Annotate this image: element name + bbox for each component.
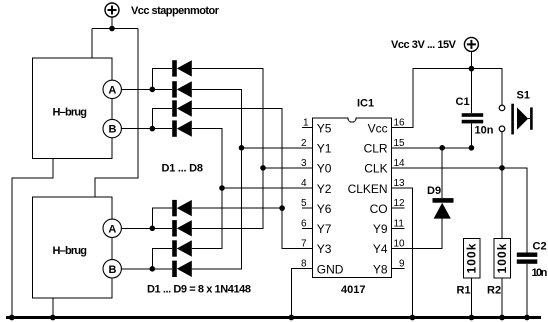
svg-text:2: 2: [301, 138, 307, 149]
svg-text:C2: C2: [533, 241, 547, 253]
wire node A1: [121, 88, 172, 90]
wire supply terminal down to C1: [470, 51, 472, 113]
wire Vcc pin 16 to supply: [392, 69, 472, 128]
svg-text:13: 13: [394, 178, 406, 189]
diode D9: [433, 198, 454, 219]
svg-text:6: 6: [301, 218, 307, 229]
svg-text:B: B: [109, 264, 117, 276]
supply terminal Vcc stappenmotor: [105, 3, 119, 17]
wire D7 stub from B2: [152, 249, 172, 269]
terminal A coil 2: [103, 219, 121, 237]
capacitor C2: [517, 253, 538, 264]
wire D1 stub from A1: [152, 68, 172, 89]
svg-text:7: 7: [301, 238, 307, 249]
wire net Y1 (pin 2, D2 anode to D8 anode): [192, 89, 313, 268]
wire D9 anode to Y4 pin 10: [392, 219, 443, 249]
resistor R2: [494, 238, 511, 278]
wire top rail: [92, 28, 138, 30]
svg-text:Y7: Y7: [317, 222, 332, 236]
wire Vcc to H-brug 2: [95, 29, 138, 198]
wire C1 bottom to CLR node: [470, 123, 472, 147]
svg-text:Vcc 3V ... 15V: Vcc 3V ... 15V: [391, 39, 457, 51]
wire net Y0 (pin 3, D1 anode to D6 anode): [192, 68, 313, 228]
H-bridge block 1: [32, 58, 112, 159]
svg-text:4017: 4017: [341, 284, 365, 296]
wire node A2: [121, 227, 172, 229]
svg-text:R1: R1: [457, 285, 471, 297]
junction Y0 net: [260, 165, 266, 171]
svg-text:10n: 10n: [532, 267, 548, 279]
svg-text:Y2: Y2: [317, 182, 332, 196]
diode D6: [172, 220, 192, 236]
wire CLKEN pin 13 to ground rail: [392, 188, 413, 318]
svg-text:15: 15: [394, 138, 406, 149]
svg-text:S1: S1: [517, 89, 530, 101]
wire D5 stub from A2: [152, 208, 172, 228]
wire H-brug1 ground: [12, 159, 53, 318]
junction Y2 net: [219, 185, 225, 191]
wire net Y2 (pin 4, D4 anode to D7 anode): [192, 129, 313, 249]
pin 1 stub Y5: [302, 127, 312, 129]
junction B2: [150, 266, 156, 272]
diode D2: [172, 81, 192, 97]
wire CLK pin 14 to C2: [392, 168, 527, 253]
supply terminal Vcc 3V...15V: [464, 37, 478, 51]
diode D4: [172, 120, 192, 136]
wire C2 bottom to rail: [526, 264, 528, 318]
junction B1: [150, 126, 156, 132]
svg-text:Y5: Y5: [317, 122, 332, 136]
switch S1: [499, 104, 532, 135]
svg-text:CLKEN: CLKEN: [348, 182, 388, 196]
diode D3: [172, 100, 192, 116]
svg-text:CO: CO: [370, 202, 388, 216]
svg-text:Vcc stappenmotor: Vcc stappenmotor: [131, 5, 220, 17]
diode D5: [172, 200, 192, 216]
svg-text:Y0: Y0: [317, 162, 332, 176]
terminal B coil 2: [103, 260, 121, 278]
svg-text:D1 ... D8: D1 ... D8: [162, 163, 204, 175]
pin 9 stub Y8: [392, 268, 405, 270]
svg-text:Y4: Y4: [373, 242, 388, 256]
svg-text:Y6: Y6: [317, 202, 332, 216]
wire R2 bottom to rail: [501, 278, 503, 317]
capacitor C1: [462, 113, 484, 123]
svg-text:H–brug: H–brug: [53, 107, 88, 119]
H-bridge block 2: [32, 197, 112, 298]
svg-text:CLR: CLR: [364, 142, 388, 156]
wire H-brug2 ground: [52, 298, 54, 318]
junction CLR/C1/R1: [469, 145, 475, 151]
wire net Y3 (pin 7, D3 anode to D5 anode): [192, 109, 313, 249]
wire D3 stub from B1: [152, 109, 172, 129]
svg-text:10: 10: [394, 238, 406, 249]
ground rail: [6, 316, 541, 319]
resistor R1: [463, 238, 480, 278]
wire R1 bottom to rail: [471, 278, 473, 317]
wire Vcc to H-brug 1: [91, 29, 93, 59]
junction Vcc node: [469, 66, 475, 72]
svg-text:Y8: Y8: [373, 262, 388, 276]
svg-text:B: B: [109, 124, 117, 136]
junction rail/H-brug1: [9, 315, 15, 321]
svg-text:100k: 100k: [495, 243, 509, 273]
svg-text:Vcc: Vcc: [368, 122, 388, 136]
svg-text:11: 11: [394, 218, 405, 229]
wire D9 cathode to CLR node: [441, 148, 443, 198]
svg-text:4: 4: [301, 178, 307, 189]
node top rail junction: [109, 26, 115, 32]
wire S1 bottom contact to R2 top: [501, 132, 503, 239]
svg-text:5: 5: [301, 198, 307, 209]
pin 5 stub Y6: [302, 207, 312, 209]
svg-text:3: 3: [301, 158, 307, 169]
junction rail/H-brug2: [50, 315, 56, 321]
diode D1: [172, 60, 192, 76]
svg-text:Y3: Y3: [317, 242, 332, 256]
wire node B1: [121, 128, 172, 130]
pin 11 stub Y9: [392, 227, 405, 229]
diode D7: [172, 240, 192, 256]
junction Y1 net: [239, 145, 245, 151]
svg-text:D9: D9: [427, 185, 441, 197]
svg-text:100k: 100k: [465, 243, 479, 273]
svg-text:R2: R2: [487, 285, 501, 297]
svg-text:8: 8: [301, 259, 307, 270]
svg-text:12: 12: [394, 198, 406, 209]
junction CLR/D9: [439, 145, 445, 151]
junction rail/GND pin8: [288, 315, 294, 321]
svg-text:16: 16: [394, 118, 406, 129]
wire CLR pin 15 to C1/R1 node: [392, 147, 472, 149]
op IC1 4017 body: [312, 118, 391, 278]
svg-text:Y1: Y1: [317, 142, 332, 156]
svg-text:D1 ... D9 = 8 x 1N4148: D1 ... D9 = 8 x 1N4148: [147, 284, 251, 296]
junction rail/R1: [469, 315, 475, 321]
svg-text:C1: C1: [456, 96, 470, 108]
wire terminal to top rail: [111, 17, 113, 29]
svg-text:Y9: Y9: [373, 222, 388, 236]
pin 12 stub CO: [392, 207, 405, 209]
junction Y3 net: [279, 205, 285, 211]
svg-text:IC1: IC1: [357, 98, 374, 110]
junction rail/CLKEN: [410, 315, 416, 321]
junction rail/R2: [499, 315, 505, 321]
terminal B coil 1: [103, 119, 121, 137]
junction A1: [150, 87, 156, 93]
svg-text:CLK: CLK: [364, 162, 387, 176]
terminal A coil 1: [103, 80, 121, 98]
junction A2: [150, 226, 156, 232]
junction rail/C2: [524, 315, 530, 321]
diode D8: [172, 261, 192, 277]
wire GND pin 8 to rail: [291, 269, 312, 318]
svg-text:14: 14: [394, 158, 406, 169]
wire Vcc node to S1 top contact: [471, 69, 502, 106]
pin 6 stub Y7: [302, 227, 312, 229]
svg-text:1: 1: [303, 118, 309, 129]
svg-text:A: A: [108, 84, 116, 96]
wire node B2: [121, 268, 172, 270]
svg-text:10n: 10n: [475, 125, 494, 137]
svg-text:A: A: [108, 223, 116, 235]
junction CLK/S1/R2: [499, 165, 505, 171]
svg-text:9: 9: [399, 259, 405, 270]
svg-text:GND: GND: [317, 262, 344, 276]
svg-text:H–brug: H–brug: [53, 245, 88, 257]
